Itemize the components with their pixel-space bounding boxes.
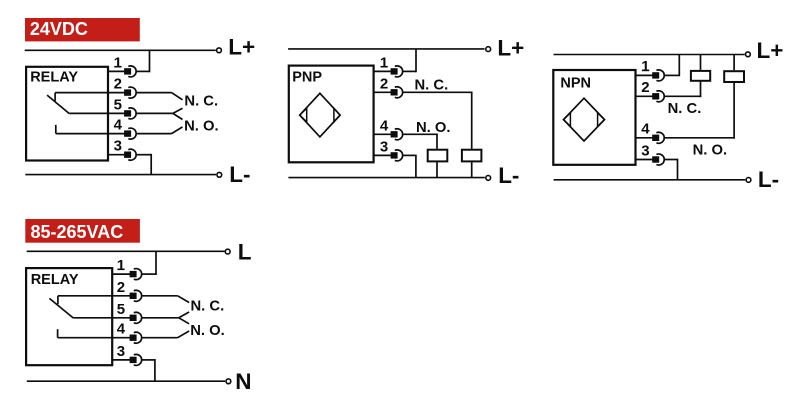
pin number 1 serif foot (block C): [381, 66, 388, 68]
wire riser load RL4 top to L+ (block D): [733, 55, 735, 71]
terminal 3 (block A): [124, 149, 136, 160]
wire terminal 2 diagonal to N.C. (block A): [172, 93, 183, 100]
svg-text:N: N: [235, 369, 251, 394]
wire terminal 2 out (block D): [664, 95, 701, 97]
wire pin5 row inside box to terminal 5: [69, 112, 125, 114]
wire riser terminal 3 down to L- (block A): [150, 154, 152, 175]
load resistor RL1 (block C N.O. load): [428, 150, 448, 162]
svg-text:N. C.: N. C.: [191, 298, 225, 314]
pin number 1 serif foot (block B): [117, 269, 124, 271]
wire stub pin 2 (block D): [636, 95, 654, 97]
svg-text:PNP: PNP: [292, 70, 322, 86]
svg-text:2: 2: [117, 279, 125, 296]
svg-text:N. C.: N. C.: [668, 101, 702, 117]
svg-text:1: 1: [114, 54, 122, 71]
node circle N (block B): [226, 379, 231, 384]
wire terminal 5 upper branch (block A): [173, 108, 183, 113]
terminal 4 (block D): [652, 132, 664, 143]
relay N.C. fixed contact tick (pin 2): [54, 93, 56, 101]
wire riser terminal 3 down to N (block B): [154, 359, 156, 381]
terminal 2 (block C): [391, 87, 403, 98]
wire terminal 5 lower branch (block A): [173, 113, 183, 119]
pin number 1 serif foot (block A): [114, 66, 121, 68]
svg-text:5: 5: [114, 96, 122, 113]
wire load RL2 down to L- (block C): [471, 162, 473, 178]
svg-text:L-: L-: [758, 167, 779, 192]
svg-text:3: 3: [380, 138, 388, 155]
sensor diamond right triangle (block D): [598, 113, 605, 127]
node circle L- (block A): [217, 172, 222, 177]
svg-text:RELAY: RELAY: [31, 272, 79, 288]
sensor box U3 PNP: [289, 66, 374, 163]
wire terminal 2 out (block A): [136, 92, 171, 94]
wire stub pin 4 (block C): [374, 133, 392, 135]
wire terminal 2 out to load riser (block C): [403, 91, 473, 93]
terminal 3 (block C): [391, 150, 403, 161]
svg-text:2: 2: [641, 79, 649, 96]
wire riser terminal 1 up to L+ (block D): [678, 55, 680, 77]
terminal 3 (block D): [652, 154, 664, 165]
svg-text:4: 4: [114, 117, 123, 134]
wire terminal 1 to riser (block D): [664, 74, 679, 76]
terminal 5 (block A): [124, 108, 136, 119]
terminal 2 (block A): [124, 87, 136, 98]
svg-text:1: 1: [380, 54, 388, 71]
rail N (block B): [27, 380, 225, 382]
svg-text:L: L: [238, 239, 252, 264]
node circle L+ (block C): [486, 47, 491, 52]
wire stub pin 3 (block D): [636, 159, 654, 161]
svg-text:N. C.: N. C.: [184, 94, 218, 110]
terminal 3 (block B): [130, 354, 142, 365]
wire pin2 row inside box to terminal 2 (block B): [58, 295, 131, 297]
terminal 2 (block B): [130, 290, 142, 301]
pin number 1 serif foot (block D): [642, 70, 649, 72]
svg-text:N. C.: N. C.: [415, 78, 449, 94]
wire terminal 4 out (block A): [136, 133, 171, 135]
node circle L+ (block A): [217, 48, 222, 53]
wire riser terminal 2 down to load RL2 (block C): [471, 92, 473, 149]
rail L (block B): [27, 250, 225, 252]
wire terminal 5 out (block B): [142, 317, 179, 319]
wire stub pin 1: [108, 70, 125, 72]
terminal 2 (block D): [652, 91, 664, 102]
rail L+ (block D): [554, 54, 745, 56]
terminal 4 (block C): [391, 129, 403, 140]
svg-text:4: 4: [380, 117, 389, 134]
wire pin4 row inside box to terminal 4: [56, 133, 125, 135]
wire terminal 4 diagonal to N.O. (block B): [178, 331, 190, 338]
sensor diamond right triangle (block C): [334, 108, 340, 122]
node circle L- (block D): [746, 178, 751, 183]
load resistor RL4 (block D N.O. load): [724, 71, 744, 82]
node circle L+ (block D): [746, 52, 751, 57]
wire riser terminal 3 down to L- (block D): [677, 159, 679, 180]
wire terminal 4 diagonal to N.O. (block A): [172, 127, 183, 134]
wire stub pin 4 (block D): [636, 137, 654, 139]
svg-text:2: 2: [380, 75, 388, 92]
wire terminal 4 out to load riser (block C): [403, 133, 438, 135]
wire pin5 row inside box to terminal 5 (block B): [73, 317, 130, 319]
label 85-265VAC red banner: [25, 219, 140, 243]
svg-text:L+: L+: [757, 38, 784, 63]
node circle L- (block C): [486, 176, 491, 181]
wire riser terminal 3 down to L- (block C): [415, 155, 417, 178]
wire terminal 5 lower branch (block B): [179, 318, 189, 324]
svg-text:L-: L-: [498, 163, 519, 188]
terminal 4 (block B): [130, 332, 142, 343]
relay box U1: [26, 67, 108, 161]
svg-text:4: 4: [117, 321, 126, 338]
terminal 1 (block B): [130, 269, 142, 280]
wire riser terminal 1 up to L+ (block A): [149, 50, 151, 72]
svg-text:N. O.: N. O.: [190, 323, 225, 339]
wire terminal 3 out (block B): [142, 359, 155, 361]
wire stub pin 1 (block B): [112, 273, 130, 275]
wire riser terminal 1 up to L+ (block C): [415, 49, 417, 72]
svg-text:L+: L+: [497, 36, 524, 61]
rail L+ (block A): [25, 49, 216, 51]
svg-text:NPN: NPN: [560, 76, 591, 92]
svg-text:4: 4: [641, 121, 650, 138]
sensor diamond symbol (block C): [300, 93, 340, 137]
wire terminal 1 to riser (block B): [142, 273, 156, 275]
wire terminal 1 to riser (block A): [136, 70, 149, 72]
wire stub pin 1 (block C): [374, 70, 392, 72]
svg-text:3: 3: [117, 343, 125, 360]
wire terminal 3 out (block C): [403, 154, 416, 156]
load resistor RL3 (block D N.C. load): [691, 71, 710, 81]
node circle L (block B): [225, 249, 230, 254]
svg-text:1: 1: [641, 58, 649, 75]
label 24VDC red banner: [25, 18, 140, 41]
wire terminal 3 out (block D): [664, 159, 677, 161]
wire load RL4 down to terminal 4 wire (block D): [733, 83, 735, 139]
terminal 5 (block B): [130, 312, 142, 323]
sensor diamond left triangle (block D): [564, 113, 571, 127]
relay common moving contact arm (block B): [49, 298, 73, 318]
svg-text:3: 3: [114, 138, 122, 155]
svg-text:N. O.: N. O.: [184, 118, 219, 134]
relay N.O. fixed contact tick (pin 4): [55, 125, 57, 134]
terminal 4 (block A): [124, 128, 136, 139]
wire load RL1 down to L- (block C): [436, 162, 438, 178]
load resistor RL2 (block C N.C. load): [462, 150, 482, 162]
wire riser terminal 1 up to L (block B): [155, 251, 157, 275]
rail L- (block D): [554, 179, 746, 181]
svg-text:L+: L+: [228, 34, 255, 59]
wire stub pin 2 (block C): [374, 91, 392, 93]
sensor diamond left triangle (block C): [300, 108, 307, 122]
svg-text:85-265VAC: 85-265VAC: [31, 222, 124, 242]
wire pin2 row inside box to terminal 2: [55, 92, 125, 94]
rail L- (block C): [288, 177, 484, 179]
wire terminal 5 upper branch (block B): [179, 312, 189, 318]
sensor box U4 NPN: [553, 70, 635, 165]
wire stub pin 3 (block C): [374, 154, 392, 156]
svg-text:5: 5: [117, 301, 125, 318]
terminal 1 (block A): [124, 66, 136, 77]
relay box U2: [26, 268, 112, 365]
svg-text:2: 2: [114, 76, 122, 93]
relay N.C. fixed contact tick (block B pin 2): [57, 296, 59, 304]
wire riser load RL3 top to L+ (block D): [700, 55, 702, 70]
rail L+ (block C): [288, 48, 485, 50]
wire pin4 row inside box to terminal 4 (block B): [58, 337, 131, 339]
wire terminal 2 out (block B): [142, 295, 178, 297]
svg-text:N. O.: N. O.: [693, 143, 728, 159]
svg-text:3: 3: [641, 142, 649, 159]
wire load RL3 down to terminal 2 wire (block D): [700, 81, 702, 97]
wire stub pin 3 (block B): [112, 359, 130, 361]
wire stub pin 1 (block D): [636, 74, 654, 76]
rail L- (block A): [25, 174, 216, 176]
wire terminal 5 out (block A): [136, 112, 173, 114]
wire terminal 4 out (block B): [142, 337, 178, 339]
terminal 1 (block C): [391, 66, 403, 77]
wire riser terminal 4 down to load RL1 (block C): [436, 134, 438, 149]
relay common moving contact arm: [47, 95, 69, 114]
svg-text:1: 1: [117, 257, 125, 274]
wire terminal 3 out (block A): [136, 154, 151, 156]
svg-text:RELAY: RELAY: [30, 70, 78, 86]
relay N.O. fixed contact tick (block B pin 4): [57, 329, 59, 338]
wire terminal 1 to riser (block C): [403, 70, 416, 72]
wire stub pin 3: [108, 154, 125, 156]
svg-text:24VDC: 24VDC: [30, 19, 88, 39]
terminal 1 (block D): [652, 70, 664, 81]
wire terminal 4 out (block D): [664, 137, 735, 139]
sensor diamond symbol (block D): [564, 98, 605, 141]
wire terminal 2 diagonal to N.C. (block B): [178, 296, 190, 303]
svg-text:L-: L-: [229, 162, 250, 187]
